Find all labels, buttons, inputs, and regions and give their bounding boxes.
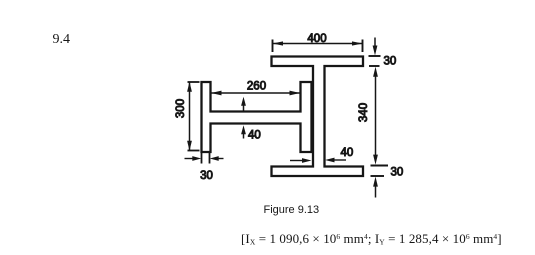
dimension 40 (H web) : upper arrow	[243, 104, 245, 139]
svg-text:300: 300	[175, 99, 187, 118]
dimension 40 (I-beam web) : arrows	[290, 159, 346, 162]
svg-text:30: 30	[391, 167, 404, 179]
problem number 9.4	[53, 32, 71, 48]
result formula	[241, 231, 502, 247]
dimension 260 : arrowheads	[211, 91, 300, 96]
H-section (rotated H profile, left part)	[202, 82, 312, 152]
svg-text:340: 340	[358, 103, 370, 122]
svg-text:400: 400	[307, 33, 326, 45]
svg-text:30: 30	[200, 170, 213, 182]
dimension 30 bottom-left : extension lines and arrows	[185, 153, 224, 164]
svg-text:40: 40	[341, 147, 354, 159]
svg-text:40: 40	[248, 130, 261, 142]
dimension 400 : arrowheads	[273, 41, 363, 45]
I-beam section (right part)	[272, 57, 364, 177]
dimension 30 top-right : arrows and ticks	[369, 38, 381, 67]
dimension 400 : line	[273, 40, 363, 53]
dimension 340 : line and arrows	[375, 76, 377, 155]
svg-text:30: 30	[384, 56, 397, 68]
svg-text:260: 260	[247, 81, 266, 93]
dimension 260 : line	[211, 92, 300, 94]
dimension 30 bottom-right : ticks and arrow	[371, 166, 389, 198]
dimension 300 : line, ticks, arrows	[188, 82, 200, 151]
figure caption	[264, 204, 320, 216]
